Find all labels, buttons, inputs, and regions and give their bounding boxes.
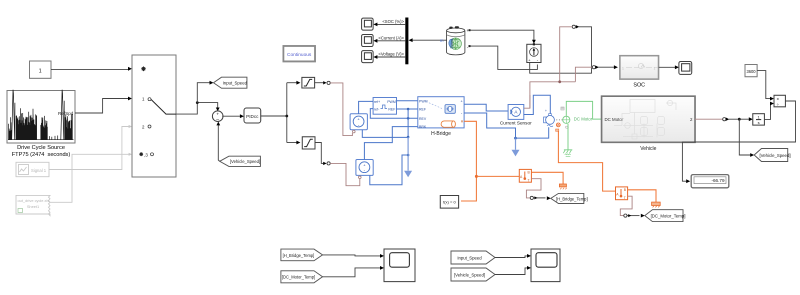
green wire DC motor shaft to Vehicle (566, 101, 602, 119)
PS converter marker on battery current line (572, 25, 575, 28)
Drive Cycle Source block (7, 91, 75, 159)
scope block SOC% (362, 18, 374, 30)
svg-text:1: 1 (654, 66, 656, 70)
svg-text:<SOC (%)>: <SOC (%)> (382, 19, 404, 24)
Goto tag [DC_Motor_Temp] (645, 210, 686, 222)
svg-text:T: T (528, 178, 530, 182)
scope block Current (362, 35, 374, 47)
wire 3600 to product (757, 71, 771, 99)
svg-text:REF: REF (388, 107, 395, 111)
saturation block 2 (302, 137, 315, 149)
Goto tag [H_Bridge_Temp] (551, 193, 588, 203)
ideal current sensor block (battery circuit) (527, 43, 541, 62)
wire H_Bridge_Temp to temperature scope (323, 255, 382, 256)
wire Vehicle_Speed to speed scope (495, 268, 528, 275)
wire junction to temperature sensor A (476, 175, 519, 177)
svg-text:Input_Speed: Input_Speed (457, 256, 482, 261)
wire battery - to ideal current sensor bottom right pin (471, 46, 538, 69)
wire current sensor - over the top to motor + (524, 95, 551, 114)
svg-text:[DC_Motor_Temp]: [DC_Motor_Temp] (282, 275, 315, 280)
thermal wire sensor1 B to thermal reference 1 (531, 172, 563, 184)
physical signal wire sensor1 T to converter (526, 179, 541, 198)
wire sensor bottom-left pin loop to conversion (gray net) (530, 27, 592, 73)
svg-text:,3: ,3 (144, 152, 148, 157)
From tag [Vehicle_Speed] (flipped, points left) (220, 156, 261, 166)
wire converter to Goto H_Bridge_Temp (533, 197, 545, 199)
integrator block 1/s (753, 114, 765, 125)
wire to integrator with junction (729, 118, 750, 120)
temperature sensor 2 (DC motor) (616, 187, 628, 200)
Vehicle subsystem block (602, 96, 695, 142)
PWM generator block (373, 98, 396, 115)
physical signal wire to voltage source 1 (330, 83, 352, 136)
sum junction block (212, 111, 223, 123)
battery block (447, 26, 471, 55)
svg-text:[H_Bridge_Temp]: [H_Bridge_Temp] (556, 196, 588, 201)
From Spreadsheet block (faded) "out_drive cycle.xlsx Sheet1" (16, 195, 50, 215)
wire VS2 - loop to reference (370, 155, 408, 185)
wire SOC output to mini scope (659, 66, 676, 68)
wire PWM ref- loop to reference rail (370, 109, 418, 119)
svg-text:s: s (758, 120, 760, 125)
electrical reference rail (362, 130, 408, 138)
PS converter after saturation 2 (315, 143, 323, 164)
svg-text:Drive Cycle Source: Drive Cycle Source (17, 145, 65, 151)
arrow into sum top (216, 108, 220, 112)
wire junction down to Goto Vehicle_Speed (739, 119, 751, 155)
wire VS2 + to H-Bridge BRK pin (364, 127, 417, 160)
wire DC_Motor_Temp to temperature scope (323, 268, 382, 277)
svg-text:DC Motor: DC Motor (574, 116, 593, 121)
svg-text:SOC: SOC (633, 83, 645, 89)
From tag [DC_Motor_Temp] (bottom group) (281, 271, 323, 283)
svg-text:1: 1 (622, 66, 624, 70)
svg-text:1: 1 (39, 68, 42, 74)
wire battery + to ideal current sensor top (471, 30, 534, 41)
mechanical rotational reference (green ground) (563, 150, 572, 157)
wire H-Bridge - down and right (464, 113, 549, 138)
svg-text:PIDcc: PIDcc (246, 114, 259, 119)
svg-text:Vehicle: Vehicle (640, 146, 656, 152)
svg-text:Input_Speed: Input_Speed (223, 81, 248, 86)
thermal reference 1 (559, 184, 566, 189)
svg-text:Signal 1: Signal 1 (31, 168, 47, 173)
svg-text:REV: REV (419, 117, 427, 121)
wire switch output to junction (176, 103, 218, 115)
electrical reference arrow 1 (407, 154, 410, 157)
wire to saturation 1 (287, 82, 298, 84)
H-Bridge block (418, 97, 464, 129)
svg-text:Sheet1: Sheet1 (27, 204, 39, 209)
wire PWM out to H-Bridge PWM pin (397, 100, 418, 102)
electrical reference arrow 2 (514, 137, 517, 140)
bus selector bar (405, 18, 408, 65)
wire branch up to Goto Input_Speed (197, 83, 210, 103)
wire PIDcc output with junction (261, 83, 287, 143)
constant block "1" (30, 61, 52, 78)
wire Drive Cycle Source to switch port 1 (75, 99, 129, 114)
svg-text:PWM: PWM (419, 99, 428, 103)
svg-text:+: + (216, 111, 219, 116)
speed scope block (531, 249, 560, 282)
divide block (774, 95, 785, 107)
wire VS1 + to PWM ref+ (359, 101, 374, 113)
PS converter after saturation 1 (315, 82, 324, 84)
svg-text:f(x) = 0: f(x) = 0 (443, 200, 456, 205)
Multiport Switch block (132, 55, 176, 177)
green wire motor case to rotational reference (567, 124, 569, 150)
junction REF to reference vertical (407, 108, 410, 111)
solver configuration block f(x)=0 (440, 196, 458, 209)
wire REF out to H-Bridge REF pin (397, 108, 418, 110)
svg-text:[Vehicle_Speed]: [Vehicle_Speed] (759, 153, 790, 158)
svg-text:×: × (777, 96, 780, 101)
thermal wire H-Bridge H port to junction (461, 121, 476, 201)
wire From Vehicle_Speed to sum bottom (218, 125, 219, 162)
svg-text:ref-: ref- (374, 107, 380, 111)
wire constant 1 to switch control port (51, 69, 129, 71)
svg-text:–: – (216, 117, 219, 123)
svg-text:3600: 3600 (746, 69, 756, 74)
physical signal wire vehicle speed output (695, 118, 723, 120)
Current Sensor block (motor circuit) (508, 105, 524, 120)
svg-text:[Vehicle_Speed]: [Vehicle_Speed] (230, 159, 260, 164)
svg-text:Continuous: Continuous (287, 52, 312, 58)
mini scope block right of SOC (679, 62, 692, 75)
wire Input_Speed to speed scope (495, 256, 528, 258)
DC Motor block (544, 107, 570, 131)
svg-text:[H_Bridge_Temp]: [H_Bridge_Temp] (283, 253, 315, 258)
constant block 3600 (745, 65, 757, 77)
svg-text:[DC_Motor_Temp]: [DC_Motor_Temp] (651, 214, 686, 219)
physical signal wire sensor2 T to converter (620, 196, 632, 215)
controlled voltage source VS1 (350, 114, 367, 133)
wire divide output loop to display (682, 101, 795, 181)
wire Signal Builder to switch port 2 (faded) (49, 127, 130, 170)
physical signal wire battery current sensor I output net (530, 27, 592, 108)
svg-text:out_drive cycle.xls: out_drive cycle.xls (18, 198, 50, 203)
temperature sensor 1 (H-Bridge) (519, 169, 531, 182)
PS converter to SOC input (592, 66, 595, 69)
drive cycle speed trace (8, 90, 74, 140)
svg-text:m: m (440, 38, 444, 43)
Goto tag [Vehicle_Speed] (right) (754, 149, 790, 162)
thermal reference 2 (652, 202, 661, 207)
Continuous annotation block (283, 46, 315, 61)
From tag Input_Speed (bottom group) (451, 251, 495, 264)
svg-text:DC Motor: DC Motor (605, 117, 624, 122)
svg-text:BRK: BRK (419, 125, 427, 129)
saturation block 1 (302, 77, 315, 88)
svg-text:FTP75 (2474 seconds): FTP75 (2474 seconds) (12, 152, 71, 158)
thermal wire sensor2 B to thermal reference 2 (628, 190, 656, 202)
svg-text:+: + (545, 109, 547, 113)
From tag [Vehicle_Speed] (bottom group) (451, 268, 495, 281)
wire H-Bridge + to motor current sensor (464, 104, 508, 111)
Goto tag Input_Speed (214, 77, 248, 88)
svg-text:H-Bridge: H-Bridge (431, 131, 451, 137)
temperature scope block (384, 249, 415, 282)
svg-text:PWM: PWM (387, 100, 396, 104)
svg-text:<Voltage (V)>: <Voltage (V)> (378, 52, 404, 57)
wire to saturation 2 (287, 142, 298, 144)
scope block Voltage (362, 51, 374, 63)
wire bus to scope1 with label <SOC (%)> (376, 23, 405, 25)
wire integrator to product (764, 104, 771, 120)
SOC subsystem block (620, 56, 659, 89)
thermal wire DC motor thermal port to sensor 2 (558, 132, 615, 192)
svg-text:<Current (A)>: <Current (A)> (378, 35, 404, 40)
display block -66.79 (691, 175, 729, 188)
PID controller block PIDcc (244, 108, 261, 123)
physical signal wire to voltage source 2 (330, 163, 360, 185)
wire bus to scope3 with label <Voltage (V)> (376, 56, 405, 58)
svg-text:REF: REF (419, 108, 426, 112)
wire From Spreadsheet to switch port 3 (faded) (50, 154, 130, 202)
junction node switch output branch (196, 101, 199, 104)
svg-text:-66.79: -66.79 (711, 178, 724, 183)
svg-text:Current Sensor: Current Sensor (500, 121, 532, 126)
controlled voltage source VS2 (356, 160, 373, 179)
Signal Builder block (faded) "Signal 1" (16, 162, 49, 176)
wire bus to scope2 with label <Current (A)> (376, 40, 405, 42)
wire sum output to PIDcc (222, 115, 241, 117)
svg-text:T: T (624, 196, 626, 200)
svg-text:[Vehicle_Speed]: [Vehicle_Speed] (454, 273, 485, 278)
physical signal wire current sensor I output (to maroon net) (524, 95, 530, 108)
From tag [H_Bridge_Temp] (bottom group) (281, 249, 323, 261)
svg-text:ref+: ref+ (374, 100, 380, 104)
wire battery m port to bus selector (412, 39, 447, 41)
wire converter to Goto DC_Motor_Temp (627, 215, 640, 217)
